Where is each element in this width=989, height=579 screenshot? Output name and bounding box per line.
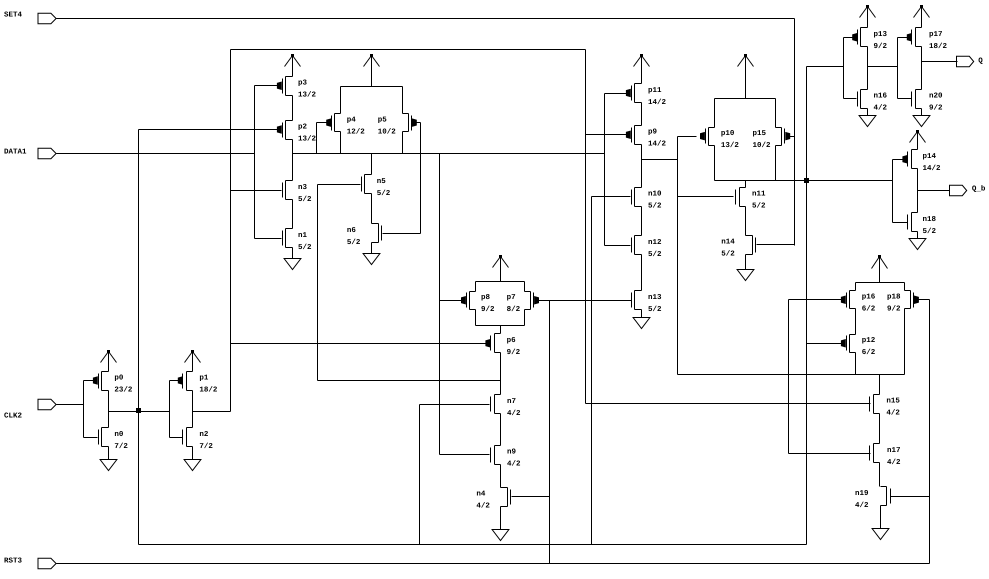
wire p11 to p9 [641,103,643,126]
transistor n18 [908,213,937,236]
svg-text:9/2: 9/2 [887,305,901,314]
svg-text:23/2: 23/2 [114,385,133,394]
svg-text:Q_b: Q_b [972,185,986,194]
wire RST3 riser right [929,300,931,564]
pmos pair p8 p7 [462,282,539,326]
wire n1 gate [255,238,282,240]
svg-text:p13: p13 [874,30,888,39]
wire DATA1 [57,153,255,155]
ground below n16 [859,109,876,127]
svg-text:5/2: 5/2 [347,238,361,247]
transistor n20 [912,90,944,113]
wire n12 gate [605,245,631,247]
svg-text:p7: p7 [507,294,516,302]
wire n10 gate [592,196,631,198]
wire p0 gate [84,380,94,382]
wire p18 gate [919,299,930,301]
svg-text:18/2: 18/2 [199,385,218,394]
power vdd above p3 [285,54,301,77]
input pin SET4 [4,11,56,24]
svg-text:p5: p5 [378,116,388,124]
transistor p13 [853,28,888,52]
pmos pair p4 p5 [327,87,417,154]
transistor n1 [283,229,313,253]
wire inv5 gate vertical [892,160,894,223]
svg-text:p12: p12 [862,336,876,345]
svg-text:n6: n6 [347,226,357,235]
svg-text:4/2: 4/2 [507,460,521,469]
wire to Q inverter input [807,66,844,68]
pmos pair p10 p15 [701,99,790,181]
svg-text:9/2: 9/2 [874,42,888,51]
wire feedback vertical p8 n9 [439,154,441,455]
input pin RST3 [4,557,56,569]
wire keeper bottom rail [678,374,856,376]
node slave output junction dot [804,178,809,183]
wire keeper drain to n15 [879,375,881,395]
transistor n9 [491,446,522,469]
svg-text:5/2: 5/2 [648,250,662,259]
svg-text:n2: n2 [199,430,209,439]
wire n17 gate [789,453,871,455]
power vdd above p8 p7 [493,255,509,282]
svg-text:p10: p10 [721,129,735,138]
wire clkb riser to n10 gate [591,197,593,545]
wire clkb riser to n7 gate [419,405,421,545]
svg-text:4/2: 4/2 [886,409,900,418]
wire Q output [922,61,958,63]
svg-text:9/2: 9/2 [481,305,495,314]
svg-text:5/2: 5/2 [298,243,312,252]
svg-text:n11: n11 [752,190,766,198]
label p7 [507,294,521,314]
wire p4p5 drain to n5 [371,154,373,175]
transistor p17 [907,28,947,52]
power vdd above p1 [185,350,201,372]
wire p6 gate [231,343,486,345]
svg-text:DATA1: DATA1 [4,148,27,156]
ground below n4 [492,507,509,541]
svg-text:p6: p6 [507,336,517,345]
wire inv1 output [109,411,170,413]
svg-text:8/2: 8/2 [507,305,521,314]
svg-text:5/2: 5/2 [648,201,662,210]
ground below n14 [737,255,754,281]
svg-text:SET4: SET4 [4,11,23,20]
wire n12 to n13 [641,255,643,291]
power vdd above p0 [101,350,117,372]
transistor n5 [362,175,391,198]
label p4 [347,116,366,136]
node clkb junction dot [136,408,141,413]
ground below n20 [913,109,930,127]
svg-text:p1: p1 [199,374,209,382]
svg-text:n19: n19 [855,489,869,498]
wire p15 gate [790,136,795,138]
wire rst riser mid [549,301,551,564]
ground below n19 [872,506,889,540]
transistor p11 [626,84,666,107]
label p18 [887,293,901,314]
svg-text:RST3: RST3 [4,557,23,566]
wire inv1 drain vertical [108,391,110,428]
wire n7 gate [420,404,490,406]
wire inv4 drain vertical [921,47,923,90]
svg-text:n4: n4 [476,490,486,498]
output pin Q [957,56,984,66]
svg-text:6/2: 6/2 [862,305,876,314]
wire p11 n12 gate vertical [604,94,606,246]
svg-text:p17: p17 [929,31,943,39]
wire p10 gate [678,136,697,138]
wire inv2 drain vertical [192,391,194,428]
svg-text:n14: n14 [721,239,735,247]
svg-text:n9: n9 [507,448,517,457]
transistor n12 [632,236,663,260]
svg-text:12/2: 12/2 [347,127,366,136]
input pin CLK2 [4,399,56,420]
svg-text:p18: p18 [887,293,901,302]
svg-text:p15: p15 [753,130,767,138]
wire p9 gate [586,134,627,136]
transistor n17 [870,444,902,467]
label p12 [862,336,876,357]
wire inv2 output [193,411,231,413]
transistor p6 [486,334,521,358]
svg-text:10/2: 10/2 [753,141,772,150]
wire p17 gate [898,37,908,39]
power vdd above p13 [860,5,876,28]
wire n15 to n17 [879,414,881,444]
wire n17 to n19 [879,463,881,487]
wire p6 to n7 [500,353,502,395]
wire n2 gate [170,437,183,439]
wire n6 gate [383,233,421,235]
wire inv3 output [868,66,898,68]
wire p11 gate [605,93,627,95]
transistor p1 [178,372,218,395]
wire stage1 output rail [293,153,605,155]
output pin Q_b [950,185,986,196]
svg-text:13/2: 13/2 [298,134,317,143]
wire n5 to n6 [371,194,373,224]
wire p8p7 drain to p6 [500,326,502,334]
wire n19 gate [891,496,930,498]
transistor n0 [99,428,129,451]
svg-text:13/2: 13/2 [721,141,740,150]
svg-text:7/2: 7/2 [114,442,128,451]
wire p3 to p2 [292,96,294,121]
wire p2 to n3 [292,140,294,181]
svg-text:4/2: 4/2 [887,458,901,467]
wire p3 gate [255,85,278,87]
wire inv5 drain vertical [917,169,919,213]
wire p12 gate [807,343,842,345]
svg-text:n17: n17 [887,447,901,455]
wire n3 gate [231,190,282,192]
svg-text:n18: n18 [923,215,937,224]
svg-text:CLK2: CLK2 [4,411,23,420]
wire n4 gate [512,496,550,498]
svg-text:9/2: 9/2 [929,104,943,113]
wire clkbb top rail [231,49,586,51]
wire clkbb vertical [230,50,232,412]
power vdd above p10 p15 [738,54,754,99]
wire p13 gate [844,37,853,39]
wire slave output rail [715,180,893,182]
transistor n4 [476,488,510,511]
wire clkb bottom rail [139,544,807,546]
ground below n18 [909,232,926,250]
wire clkb to p2 gate [139,129,278,131]
power vdd above p4 p5 [364,54,380,87]
svg-text:18/2: 18/2 [929,42,948,51]
label p10 [721,129,740,150]
transistor n11 [736,188,767,211]
transistor n15 [870,395,901,418]
wire junction vertical [806,67,808,545]
svg-text:5/2: 5/2 [377,189,391,198]
wire clkb vertical [138,130,140,545]
wire n11 to n14 [745,207,747,236]
transistor n10 [632,188,663,211]
svg-text:n1: n1 [298,232,308,240]
wire inv1 gate vertical [83,381,85,438]
wire p5 n6 gate vertical [420,123,422,234]
wire p7 to n13 gate [539,300,632,302]
label p8 [481,293,495,314]
wire n20 gate [898,98,912,100]
wire n11 gate [678,196,734,198]
wire inv3 drain vertical [867,47,869,90]
wire p4 gate [317,122,328,124]
svg-text:4/2: 4/2 [507,409,521,418]
svg-text:p11: p11 [648,87,662,95]
wire n9 to n4 [500,465,502,488]
transistor n19 [855,487,891,511]
transistor n3 [283,181,313,204]
wire slave node tap [642,159,678,161]
wire n5 gate [318,184,361,186]
svg-text:n20: n20 [929,92,943,101]
svg-text:n10: n10 [648,189,662,198]
power vdd above p11 [634,54,650,84]
transistor n7 [491,395,522,419]
wire n7 to n9 [500,414,502,446]
transistor n13 [632,291,663,315]
wire n18 gate [893,222,908,224]
label p15 [753,130,772,150]
svg-text:p8: p8 [481,293,491,302]
ground below n6 [363,243,380,265]
svg-text:5/2: 5/2 [298,195,312,204]
wire n10 to n12 [641,207,643,236]
transistor p2 [277,121,316,144]
svg-text:n16: n16 [874,92,888,101]
svg-text:14/2: 14/2 [648,140,667,149]
wire CLK2 to inverter input [57,404,84,406]
wire Q_b output [918,190,950,192]
svg-text:p2: p2 [298,122,308,131]
pmos pair p16 p18 with p12 [841,283,918,375]
transistor p14 [903,150,941,174]
wire p5 gate [416,122,421,124]
svg-text:p9: p9 [648,128,658,137]
transistor n16 [858,90,888,113]
wire p4 gate vertical [316,123,318,154]
wire n3 to n1 [292,200,294,229]
wire p9 to n10 [641,145,643,188]
wire SET4 [57,18,795,20]
svg-text:4/2: 4/2 [874,104,888,113]
svg-text:5/2: 5/2 [721,250,735,259]
transistor n2 [183,428,214,451]
transistor p9 [626,126,666,149]
transistor n14 [721,236,755,259]
svg-text:7/2: 7/2 [199,442,213,451]
wire clkbb right vertical [585,50,587,404]
svg-text:10/2: 10/2 [378,127,397,136]
wire feedback to p6 n7 drains [318,380,501,382]
svg-text:5/2: 5/2 [752,201,766,210]
wire inv2 gate vertical [169,381,171,438]
ground below n2 [184,447,201,471]
power vdd above p16 p18 [872,255,888,283]
svg-text:n5: n5 [377,178,387,186]
svg-text:n3: n3 [298,183,308,192]
wire p1 gate [170,380,179,382]
ground below n0 [100,447,117,471]
svg-text:p4: p4 [347,116,357,124]
svg-text:6/2: 6/2 [862,348,876,357]
svg-text:n13: n13 [648,293,662,302]
svg-text:4/2: 4/2 [855,501,869,510]
ground below n1 [284,248,301,270]
svg-text:n15: n15 [886,398,900,406]
wire slave out to n11 [745,181,747,188]
label p16 [862,293,876,314]
svg-text:4/2: 4/2 [476,501,490,510]
wire n5 feedback vertical [317,185,319,381]
svg-text:p14: p14 [923,153,937,161]
svg-text:n0: n0 [114,430,124,439]
wire keeper input vertical [788,300,790,454]
svg-text:p16: p16 [862,293,876,302]
wire p14 gate [893,159,903,161]
ground below n13 [633,310,650,329]
transistor p3 [277,77,316,100]
wire RST3 [57,563,930,565]
svg-text:14/2: 14/2 [648,98,667,107]
svg-text:n12: n12 [648,238,662,247]
wire slave node vertical [677,137,679,375]
svg-text:p0: p0 [114,373,124,382]
input pin DATA1 [4,148,56,158]
svg-text:14/2: 14/2 [923,164,942,173]
svg-text:13/2: 13/2 [298,91,317,100]
wire n0 gate [84,437,98,439]
transistor p0 [93,372,133,395]
wire p16 gate [789,299,842,301]
wire n14 gate [757,244,795,246]
power vdd above p17 [914,5,930,28]
wire SET4 vertical [794,19,796,246]
label p5 [378,116,397,136]
svg-text:9/2: 9/2 [507,348,521,357]
svg-text:5/2: 5/2 [923,227,937,236]
wire DATA1 gate vertical [254,86,256,239]
wire inv4 gate vertical [897,38,899,99]
wire inv3 gate vertical [843,38,845,99]
wire n9 gate [440,454,490,456]
svg-text:p3: p3 [298,79,308,88]
power vdd above p14 [910,130,926,150]
transistor n6 [347,224,382,248]
wire n16 gate [844,98,857,100]
svg-text:n7: n7 [507,398,516,406]
svg-text:5/2: 5/2 [648,305,662,314]
wire p8 gate [440,300,462,302]
svg-text:Q: Q [978,56,983,65]
wire n15 gate [586,403,871,405]
